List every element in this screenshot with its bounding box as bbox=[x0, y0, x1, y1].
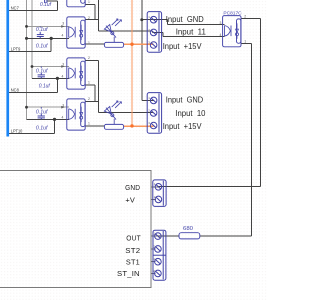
svg-text:0.1uf: 0.1uf bbox=[39, 84, 51, 90]
svg-text:3: 3 bbox=[62, 103, 64, 107]
svg-text:0.1uf: 0.1uf bbox=[36, 43, 49, 49]
svg-text:2: 2 bbox=[244, 15, 246, 19]
svg-text:3: 3 bbox=[62, 21, 64, 25]
svg-text:3: 3 bbox=[62, 62, 64, 66]
svg-text:OUT: OUT bbox=[126, 234, 141, 243]
svg-text:Input GND: Input GND bbox=[166, 96, 203, 105]
svg-text:0.1uf: 0.1uf bbox=[36, 68, 49, 74]
svg-text:NC7: NC7 bbox=[11, 6, 19, 12]
svg-text:680: 680 bbox=[183, 226, 193, 232]
svg-text:2: 2 bbox=[88, 97, 90, 101]
svg-text:4: 4 bbox=[220, 33, 222, 37]
svg-text:4: 4 bbox=[62, 34, 64, 38]
svg-text:Input GND: Input GND bbox=[166, 15, 204, 24]
svg-text:0.1uf: 0.1uf bbox=[36, 109, 49, 115]
svg-text:Input +15V: Input +15V bbox=[163, 122, 202, 131]
svg-text:1: 1 bbox=[244, 40, 246, 44]
svg-text:Input +15V: Input +15V bbox=[163, 42, 202, 51]
svg-text:GND: GND bbox=[125, 183, 140, 192]
svg-text:0.1uf: 0.1uf bbox=[36, 27, 49, 33]
svg-text:Input 11: Input 11 bbox=[176, 27, 207, 36]
svg-text:Input 10: Input 10 bbox=[175, 109, 206, 118]
svg-text:LPT9: LPT9 bbox=[11, 47, 21, 53]
svg-text:NC8: NC8 bbox=[11, 88, 19, 94]
svg-text:3: 3 bbox=[220, 21, 222, 25]
svg-text:LPT10: LPT10 bbox=[11, 129, 23, 135]
svg-text:1: 1 bbox=[88, 122, 90, 126]
svg-text:1: 1 bbox=[88, 41, 90, 45]
svg-text:+V: +V bbox=[125, 195, 135, 204]
svg-text:1: 1 bbox=[88, 81, 90, 85]
svg-text:ST_IN: ST_IN bbox=[117, 269, 140, 278]
svg-text:4: 4 bbox=[62, 116, 64, 120]
svg-text:2: 2 bbox=[88, 16, 90, 20]
svg-text:0.1uf: 0.1uf bbox=[36, 125, 49, 131]
svg-text:ST2: ST2 bbox=[125, 246, 140, 255]
svg-text:4: 4 bbox=[62, 75, 64, 79]
svg-text:2: 2 bbox=[88, 56, 90, 60]
svg-text:0.1uf: 0.1uf bbox=[40, 2, 52, 8]
svg-text:1: 1 bbox=[88, 0, 90, 4]
svg-text:PC817C: PC817C bbox=[223, 10, 241, 15]
svg-text:ST1: ST1 bbox=[126, 257, 140, 266]
